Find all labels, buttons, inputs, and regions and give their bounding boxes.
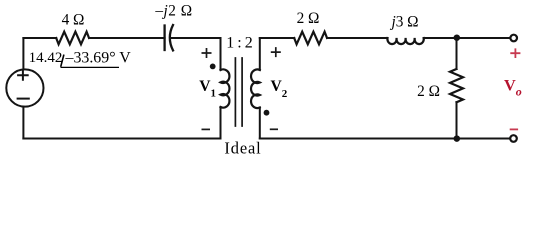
wire capacitor to primary corner (170, 37, 220, 39)
resistor R1 4ohm zigzag (56, 32, 89, 45)
resistor R2 2ohm zigzag (294, 32, 327, 45)
voltage source plus sign (17, 70, 29, 81)
transformer T1 primary coil (221, 69, 230, 107)
svg-text:2 Ω: 2 Ω (417, 83, 440, 100)
output minus sign red (510, 128, 518, 130)
resistor R3 2ohm load zigzag (450, 69, 463, 102)
secondary plus sign (271, 47, 281, 57)
voltage source minus sign (18, 98, 29, 100)
wire load resistor lower (456, 102, 458, 138)
terminal circle top (510, 35, 517, 42)
node junction dot top (454, 34, 461, 41)
transformer T1 core lines (235, 58, 242, 126)
wire inductor to terminal (424, 37, 510, 39)
capacitor C1 -j2ohm flat left plate (163, 26, 165, 51)
wire secondary vertical upper (259, 38, 261, 70)
svg-text:14.42: 14.42 (29, 50, 63, 66)
wire primary vertical lower (220, 107, 222, 139)
wire bottom-right rail (260, 138, 510, 140)
label source value 14.42 angle -33.69 V (29, 49, 132, 67)
svg-text:Ideal: Ideal (224, 139, 261, 158)
secondary minus sign (270, 128, 278, 130)
wire resistor to capacitor (89, 37, 165, 39)
node junction dot bottom (454, 135, 461, 142)
transformer primary polarity dot (210, 64, 216, 70)
capacitor C1 -j2ohm curved right plate (170, 25, 173, 50)
terminal circle bottom (510, 135, 517, 142)
wire top-left rail (23, 37, 56, 39)
svg-text:1:2: 1:2 (226, 35, 255, 52)
wire left rail lower (22, 107, 24, 139)
transformer secondary polarity dot (264, 110, 270, 116)
wire bottom-left rail (23, 138, 220, 140)
wire left rail upper (22, 38, 24, 70)
wire secondary vertical lower (259, 108, 261, 139)
svg-text:–33.69° V: –33.69° V (65, 49, 132, 66)
primary minus sign (202, 128, 211, 130)
wire load resistor upper (456, 38, 458, 69)
output plus sign red (510, 48, 520, 58)
svg-text:–j2 Ω: –j2 Ω (154, 3, 192, 20)
wire primary vertical upper (220, 38, 222, 70)
transformer T1 secondary coil (251, 69, 260, 108)
svg-text:4 Ω: 4 Ω (62, 11, 85, 28)
wire resistor to inductor (327, 37, 388, 39)
primary plus sign (202, 48, 212, 58)
inductor L1 j3ohm coil (387, 38, 423, 44)
voltage source VS circle (6, 69, 43, 106)
svg-text:j3 Ω: j3 Ω (389, 14, 418, 31)
svg-text:2 Ω: 2 Ω (297, 10, 320, 27)
wire secondary top rail (260, 37, 294, 39)
